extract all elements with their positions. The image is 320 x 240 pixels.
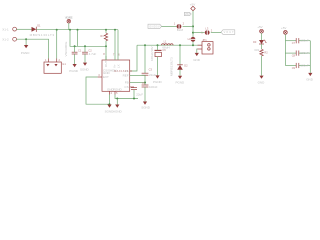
svg-text:4.7uF: 4.7uF (89, 52, 97, 56)
connector X1 pin X1-2 (13, 37, 17, 41)
resistor R1 wires (105, 30, 107, 60)
wire from left pin around bottom (86, 77, 110, 104)
capacitor C2 wires (84, 46, 86, 62)
capacitor C5 small (131, 88, 137, 90)
svg-text:C9: C9 (292, 66, 296, 70)
wire L2 to stem (183, 25, 193, 27)
wire R2 to ground (261, 56, 263, 76)
IC U1 bottom pin labels (107, 87, 123, 91)
supply diamond symbol (191, 6, 196, 11)
wire LED to R2 (261, 44, 263, 49)
junction (69, 29, 71, 31)
junction (25, 38, 27, 40)
svg-text:PGND: PGND (176, 81, 186, 85)
svg-text:C3: C3 (149, 68, 153, 72)
svg-text:100nF: 100nF (300, 51, 309, 55)
svg-text:D1: D1 (37, 23, 41, 27)
svg-text:R1: R1 (100, 34, 104, 38)
IC U1 left pin labels (103, 68, 117, 79)
junction (114, 29, 116, 31)
wire L3 to flag (211, 32, 221, 34)
ground below IC pin 5 (115, 105, 119, 108)
wire IC right pin to C3 bottom (130, 74, 145, 76)
wire bridge from IC right pin 1 up and over (130, 45, 137, 71)
ground below R2 (259, 76, 263, 79)
junction (144, 82, 146, 84)
svg-text:22uF: 22uF (136, 93, 143, 97)
svg-text:VSOURCE: VSOURCE (64, 42, 68, 57)
junction (192, 32, 194, 34)
transistor Q1 pin number marks (45, 58, 61, 62)
svg-text:PGND: PGND (153, 80, 163, 84)
svg-text:D2: D2 (184, 63, 188, 67)
wire rung 1 (285, 40, 310, 42)
jumper JP1 contact circles (208, 44, 211, 51)
inductor L1 (162, 44, 174, 45)
wire C3 bottom down to C4 (144, 75, 146, 85)
svg-text:PGND: PGND (21, 51, 31, 55)
junction (133, 98, 135, 100)
inductor L3 pin numbers (201, 29, 213, 35)
IC U1 top pin labels vertical (104, 61, 121, 69)
svg-text:G1: G1 (62, 62, 66, 66)
diode D2 (177, 65, 183, 70)
IC U1 top pin 1 wire (105, 56, 107, 60)
ground SGND below IC pin 4 (107, 105, 111, 108)
wire bottom pin 4 down (109, 95, 111, 105)
capacitor C8 (296, 51, 299, 56)
inductor L2 ferrite bead (177, 24, 182, 29)
IC U1 right pin labels (123, 69, 129, 89)
wire supply to LED (261, 33, 263, 40)
supply symbol cap bank (284, 31, 288, 35)
capacitor C6 polarized output (155, 50, 162, 56)
ground below D2 (178, 76, 182, 79)
junction (56, 29, 58, 31)
svg-text:331: 331 (254, 48, 259, 52)
wire VOUT node horizontal (137, 44, 202, 46)
wire IC right pin FB (130, 82, 145, 84)
svg-text:68uH: 68uH (162, 46, 169, 50)
capacitor C9 (296, 63, 299, 68)
svg-text:SGND: SGND (141, 106, 151, 110)
svg-text:C4: C4 (142, 81, 146, 85)
svg-text:MBRS130LT3: MBRS130LT3 (30, 33, 55, 37)
ground below C6 (155, 75, 159, 78)
wire from flag to L2 (162, 25, 177, 27)
ground below C4 (143, 102, 147, 105)
inductor L3 ferrite bead (205, 30, 210, 35)
wire right rail (309, 41, 311, 73)
IC right pin stub y71 (130, 70, 132, 72)
svg-text:GND: GND (258, 80, 266, 84)
junction (192, 25, 194, 27)
inductor L3 gap (206, 30, 209, 35)
capacitor C1 (72, 52, 78, 54)
junction (144, 44, 146, 46)
svg-text:VOUT: VOUT (185, 13, 191, 16)
svg-text:100nF: 100nF (149, 85, 158, 89)
svg-text:D3: D3 (253, 40, 257, 44)
svg-text:100uF/10V: 100uF/10V (150, 46, 154, 61)
IC U1 left pin stub (98, 76, 102, 78)
wire (17, 28, 32, 30)
IC U1 bottom pin stubs (110, 91, 116, 94)
junction at diode D2 (179, 44, 181, 46)
junction (84, 45, 86, 47)
supply symbol right column (260, 29, 264, 33)
junction (105, 45, 107, 47)
svg-text:MBRS130LT3: MBRS130LT3 (169, 57, 173, 76)
svg-text:FB: FB (125, 81, 129, 85)
IC U1 MAX1626 box (102, 60, 130, 91)
ground below right rail (308, 73, 312, 76)
svg-text:EXT: EXT (103, 75, 109, 79)
transistor Q1 pin 2 stub (56, 59, 58, 63)
wire (77, 30, 79, 47)
svg-text:SGND: SGND (80, 67, 90, 71)
wire (25, 39, 27, 45)
wire rung 2 (285, 52, 310, 54)
supply VSOURCE symbol (67, 19, 71, 23)
svg-text:100nF: 100nF (300, 39, 309, 43)
svg-text:100nF: 100nF (300, 63, 309, 67)
wire C5 down to bottom wire (133, 90, 135, 99)
svg-text:+5V: +5V (281, 26, 286, 30)
svg-text:REF: REF (123, 73, 129, 77)
junction (105, 29, 107, 31)
wire from rail to Q1 pin 2 (56, 30, 58, 59)
resistor R1 (104, 33, 107, 41)
svg-text:X1-1: X1-1 (2, 27, 9, 31)
inductor L4 gap (190, 38, 195, 41)
wire (17, 39, 49, 58)
wire rail corner down to IC top pin 3 (117, 30, 119, 60)
svg-text:OUT: OUT (104, 61, 108, 68)
inductor L4 ferrite bead vertical (191, 37, 196, 42)
svg-text:PGND: PGND (69, 69, 79, 73)
svg-text:JP1: JP1 (202, 38, 207, 42)
jumper JP1 box (202, 42, 213, 54)
capacitor C6 wires (157, 45, 159, 75)
wire down to D2 (179, 45, 181, 65)
svg-text:X1-2: X1-2 (2, 38, 9, 42)
svg-text:PGND: PGND (113, 87, 123, 91)
junction (192, 44, 194, 46)
transistor Q1 pin 1 stub (48, 59, 50, 63)
svg-text:AGND: AGND (113, 109, 123, 113)
wire C4 down to ground (144, 87, 146, 102)
wire down to C3 (144, 45, 146, 73)
IC U1 top pin numbers (103, 52, 120, 56)
svg-text:VOUT: VOUT (224, 31, 234, 34)
svg-text:22uF: 22uF (149, 73, 156, 77)
transistor Q1 internal marks (46, 64, 57, 66)
wire VSOURCE rail (36, 29, 118, 31)
junction (77, 29, 79, 31)
ground below C1 (73, 64, 77, 67)
svg-text:LX: LX (116, 64, 120, 68)
svg-text:GND5V: GND5V (149, 25, 160, 28)
wire spur to ground (116, 99, 118, 105)
net flag VOUT left of stem (184, 12, 191, 16)
LED D3 (259, 40, 266, 44)
IC right pin stub y87 to C5 (130, 86, 134, 88)
resistor R2 (260, 49, 263, 56)
junction (74, 45, 76, 47)
jumper JP1 pin stubs (198, 45, 203, 49)
wire rung 3 (285, 65, 310, 67)
capacitor C7 (296, 38, 299, 43)
capacitor C3 (142, 73, 149, 75)
svg-text:GND: GND (306, 78, 314, 82)
svg-text:R2: R2 (264, 50, 268, 54)
wire rail to IC top pin 2 (114, 30, 116, 60)
capacitor C1 wires (74, 46, 76, 64)
junction VOUT at output cap (157, 44, 159, 46)
junction (116, 98, 118, 100)
ground below C2 (83, 63, 87, 66)
svg-text:C8: C8 (292, 53, 296, 57)
IC U1 bottom pin numbers (111, 91, 119, 95)
svg-text:BLM: BLM (177, 28, 184, 32)
inductor L2 gap (178, 24, 181, 29)
wire bottom pin 5 down and right (115, 95, 138, 99)
net flag GND mid left (148, 24, 162, 28)
wire (68, 23, 70, 30)
wire supply to left rail (284, 34, 286, 40)
svg-text:C1: C1 (78, 48, 82, 52)
connector X1 pin X1-1 (13, 27, 17, 31)
wire left rail (284, 41, 286, 66)
ground below JP1 (195, 53, 199, 56)
capacitor C2 (82, 52, 88, 54)
svg-text:+5V: +5V (257, 25, 262, 29)
ground PGND symbol (24, 45, 28, 48)
wire stem to L3 row (193, 32, 205, 34)
diode D1 (32, 27, 37, 32)
wire stem from diamond down (192, 11, 194, 46)
junction (109, 103, 111, 105)
wire JP1 pin2 to ground (196, 49, 199, 53)
wire D2 to ground (179, 70, 181, 76)
wire: supply drop to cap bus (70, 30, 106, 47)
inductor L2 pin numbers (174, 21, 185, 25)
transistor Q1 box (44, 62, 61, 73)
svg-text:CS: CS (124, 85, 128, 89)
capacitor C4 (142, 85, 149, 87)
net flag VOUT right (221, 30, 235, 35)
svg-text:+5V: +5V (190, 3, 195, 7)
svg-text:C7: C7 (292, 41, 296, 45)
svg-text:GND: GND (193, 58, 201, 62)
